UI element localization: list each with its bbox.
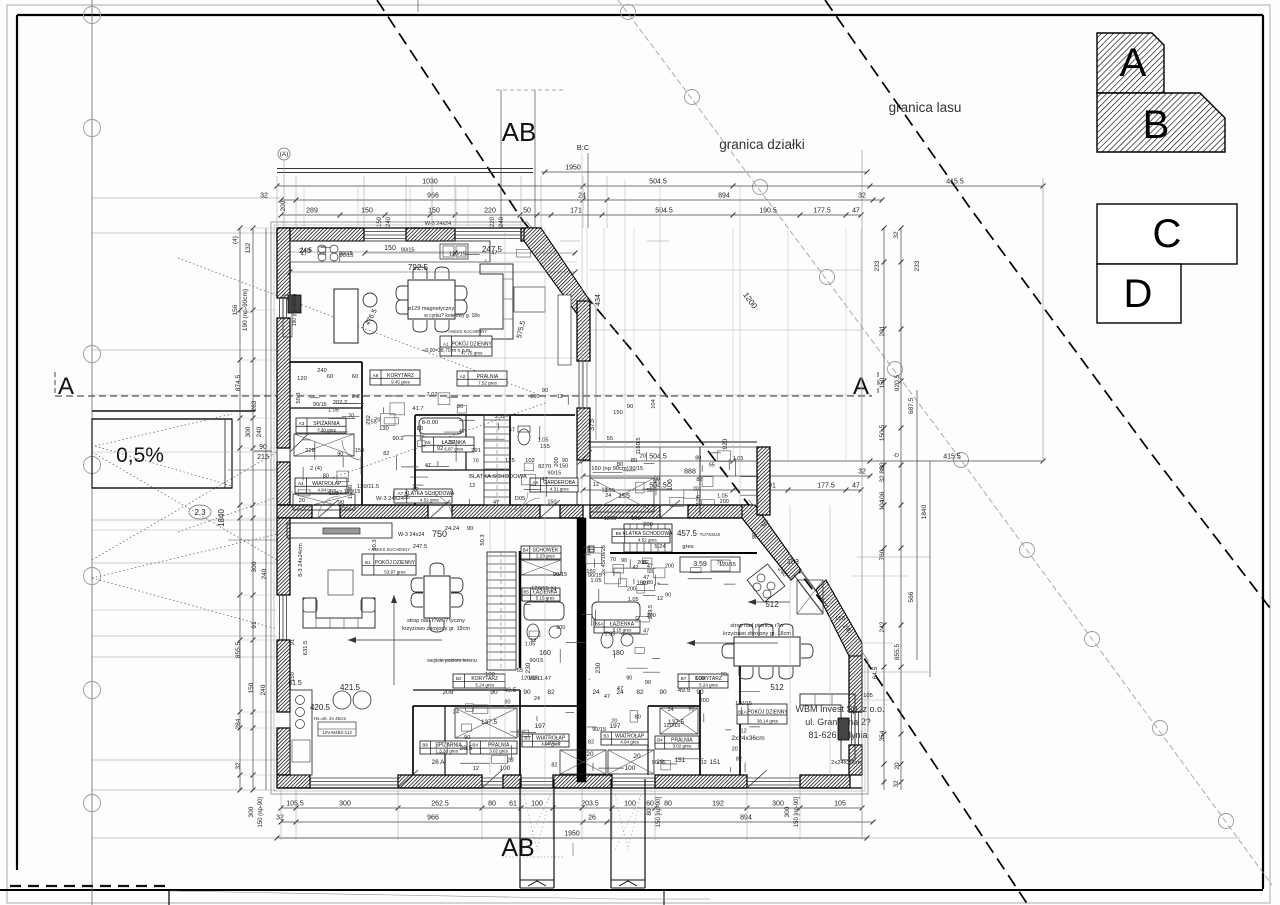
svg-text:177.5: 177.5 xyxy=(813,208,831,215)
kitchen dim lines xyxy=(365,252,575,254)
svg-text:20: 20 xyxy=(299,498,305,504)
svg-text:300: 300 xyxy=(772,801,784,808)
svg-text:KLATKA SCHODOWA: KLATKA SCHODOWA xyxy=(623,531,673,537)
svg-text:POKÓJ DZIENNY: POKÓJ DZIENNY xyxy=(375,559,416,566)
svg-text:1.05: 1.05 xyxy=(538,437,549,443)
svg-text:24: 24 xyxy=(668,707,674,713)
svg-text:2.23 gres: 2.23 gres xyxy=(536,554,556,559)
svg-text:wejście poziom terenu: wejście poziom terenu xyxy=(427,658,477,664)
wiatrolap A xyxy=(295,478,347,493)
survey axis line left xyxy=(91,0,93,905)
svg-text:200: 200 xyxy=(647,613,656,619)
upper unit top wall xyxy=(277,228,364,241)
svg-text:60: 60 xyxy=(327,374,333,380)
axis circle y=690 xyxy=(84,682,101,699)
schowek B-right xyxy=(588,546,594,552)
svg-text:ø129 magnetyczny: ø129 magnetyczny xyxy=(408,306,455,312)
svg-text:434: 434 xyxy=(595,294,602,306)
svg-text:82: 82 xyxy=(538,464,544,470)
svg-text:W-3 24x24: W-3 24x24 xyxy=(398,532,425,538)
svg-text:90/15: 90/15 xyxy=(313,402,327,408)
svg-text:150 [np-90]: 150 [np-90] xyxy=(794,796,800,827)
svg-text:12: 12 xyxy=(593,482,599,488)
svg-text:5.15 gres: 5.15 gres xyxy=(613,628,633,633)
svg-text:W-3 24x24: W-3 24x24 xyxy=(376,496,405,502)
svg-text:300: 300 xyxy=(245,426,252,437)
svg-text:47: 47 xyxy=(643,575,649,581)
svg-text:100: 100 xyxy=(625,765,636,772)
couch upper xyxy=(480,264,513,339)
svg-text:220: 220 xyxy=(484,208,496,215)
svg-text:granica lasu: granica lasu xyxy=(889,100,962,115)
svg-text:150: 150 xyxy=(559,463,568,469)
svg-text:50: 50 xyxy=(523,208,531,215)
svg-text:90/15: 90/15 xyxy=(629,466,643,472)
svg-text:90/15: 90/15 xyxy=(530,658,544,664)
svg-text:300: 300 xyxy=(248,806,255,817)
hob xyxy=(318,245,326,253)
svg-text:+ ANEKS KUCHENNY: + ANEKS KUCHENNY xyxy=(445,329,487,334)
svg-text:47: 47 xyxy=(604,694,610,700)
svg-text:24: 24 xyxy=(453,709,459,715)
svg-text:1260: 1260 xyxy=(604,516,617,522)
svg-text:2 (4): 2 (4) xyxy=(310,466,322,472)
svg-text:32: 32 xyxy=(235,762,242,770)
svg-text:2x24x36cm: 2x24x36cm xyxy=(831,760,861,766)
svg-text:1840: 1840 xyxy=(217,509,226,527)
svg-text:240: 240 xyxy=(256,426,263,437)
svg-text:150: 150 xyxy=(355,448,364,454)
svg-text:PRALNIA: PRALNIA xyxy=(477,374,499,380)
svg-text:153: 153 xyxy=(835,616,845,622)
dimension extension stubs right rows xyxy=(586,228,588,461)
boundary survey line with circles xyxy=(618,0,1272,885)
bottom rooms labels xyxy=(420,741,467,754)
svg-text:32: 32 xyxy=(276,815,284,822)
svg-text:247.5: 247.5 xyxy=(413,544,428,550)
svg-text:12: 12 xyxy=(701,760,707,766)
svg-text:90/15: 90/15 xyxy=(339,251,353,257)
faint horizontals xyxy=(290,261,577,263)
svg-text:24: 24 xyxy=(605,493,611,499)
svg-text:150: 150 xyxy=(290,672,296,682)
radiator left wall xyxy=(288,295,301,313)
svg-text:80: 80 xyxy=(695,455,701,461)
svg-text:106: 106 xyxy=(696,495,702,505)
tub A xyxy=(419,418,463,434)
svg-text:631.5: 631.5 xyxy=(303,641,309,656)
svg-text:180: 180 xyxy=(612,650,624,657)
svg-text:-D: -D xyxy=(893,453,899,459)
svg-text:24: 24 xyxy=(592,689,600,696)
svg-text:BLATKA SCHODOWA: BLATKA SCHODOWA xyxy=(469,474,527,480)
top dimension row detail xyxy=(281,214,861,216)
svg-text:B5A: B5A xyxy=(595,622,604,627)
svg-text:140: 140 xyxy=(631,516,641,522)
svg-text:120/15: 120/15 xyxy=(521,675,538,681)
bottom dimension row 1950 xyxy=(92,837,1240,839)
svg-text:4.52 gres: 4.52 gres xyxy=(638,538,658,543)
label A2 pralnia xyxy=(457,371,507,386)
axis circle y=465 xyxy=(84,457,101,474)
svg-text:209: 209 xyxy=(443,689,454,696)
svg-text:32: 32 xyxy=(893,231,900,239)
svg-text:5.15 gres: 5.15 gres xyxy=(536,596,556,601)
svg-text:20: 20 xyxy=(640,454,646,460)
svg-text:SPIŻARNIA: SPIŻARNIA xyxy=(313,420,340,427)
svg-text:1950: 1950 xyxy=(565,165,581,172)
island upper xyxy=(334,289,358,343)
svg-text:82: 82 xyxy=(736,756,742,762)
svg-text:100: 100 xyxy=(531,801,543,808)
svg-text:12: 12 xyxy=(449,440,455,446)
rug upper xyxy=(514,287,545,312)
bottom dimension row detail xyxy=(281,807,862,809)
svg-text:792.5: 792.5 xyxy=(408,263,429,272)
section tower 2 xyxy=(610,779,612,888)
svg-text:91: 91 xyxy=(290,639,296,645)
svg-text:100: 100 xyxy=(695,676,705,682)
lower unit left wall xyxy=(277,518,290,595)
party wall between lower units (solid) xyxy=(577,518,586,782)
svg-text:300: 300 xyxy=(339,801,351,808)
svg-text:60: 60 xyxy=(646,801,654,808)
svg-text:28 A: 28 A xyxy=(431,759,445,766)
svg-text:151: 151 xyxy=(675,757,686,764)
svg-text:125: 125 xyxy=(505,458,515,464)
svg-text:120/15: 120/15 xyxy=(544,741,561,747)
svg-text:228: 228 xyxy=(305,448,315,454)
svg-text:90: 90 xyxy=(645,680,651,686)
svg-text:90: 90 xyxy=(626,675,632,681)
svg-text:B4: B4 xyxy=(523,548,529,553)
svg-text:263: 263 xyxy=(251,400,258,411)
svg-text:354: 354 xyxy=(879,730,886,741)
svg-text:POKÓJ DZIENNY: POKÓJ DZIENNY xyxy=(747,709,788,716)
svg-text:420.5: 420.5 xyxy=(310,703,331,712)
svg-text:20: 20 xyxy=(586,751,594,758)
svg-text:47: 47 xyxy=(425,463,431,469)
svg-text:150 [np-90]: 150 [np-90] xyxy=(656,796,662,827)
svg-text:155: 155 xyxy=(618,493,630,500)
svg-text:190.5: 190.5 xyxy=(759,208,777,215)
svg-text:5.24 gres: 5.24 gres xyxy=(699,683,719,688)
svg-text:90/15: 90/15 xyxy=(652,760,666,766)
svg-text:7.52 gres: 7.52 gres xyxy=(478,381,498,386)
svg-text:4.94 gres: 4.94 gres xyxy=(620,740,640,745)
kitchen lower-left xyxy=(290,690,312,775)
svg-text:8-3 24x24cm: 8-3 24x24cm xyxy=(298,543,304,577)
top dimension row 1030/504.5/415.5 xyxy=(277,185,1043,187)
svg-text:156: 156 xyxy=(232,304,239,315)
ordinate lines xyxy=(92,197,280,199)
svg-text:192: 192 xyxy=(712,801,724,808)
diagonal window X xyxy=(797,580,823,614)
svg-text:82: 82 xyxy=(547,689,555,696)
svg-text:B6: B6 xyxy=(616,531,622,536)
left vertical dimension chains xyxy=(239,228,241,790)
svg-text:415.5: 415.5 xyxy=(946,179,964,186)
svg-text:60: 60 xyxy=(352,374,358,380)
sight dotted lines xyxy=(95,414,232,446)
interior walls upper xyxy=(290,361,362,363)
svg-text:1840: 1840 xyxy=(921,504,928,519)
svg-text:150: 150 xyxy=(637,581,646,587)
bottom dimension row 966/894 xyxy=(281,821,873,823)
svg-text:82: 82 xyxy=(696,477,702,483)
svg-text:55: 55 xyxy=(607,436,613,442)
svg-text:153: 153 xyxy=(787,559,799,566)
svg-text:82: 82 xyxy=(383,451,389,457)
svg-text:242: 242 xyxy=(879,621,886,632)
guide verticals between towers xyxy=(572,843,574,856)
svg-text:90: 90 xyxy=(688,707,694,713)
svg-text:240: 240 xyxy=(260,684,267,695)
svg-text:82: 82 xyxy=(412,487,418,493)
eaves outline xyxy=(271,222,596,794)
svg-text:32: 32 xyxy=(879,475,886,483)
svg-text:9.45 gres: 9.45 gres xyxy=(391,380,411,385)
svg-text:55: 55 xyxy=(647,488,653,494)
svg-text:90: 90 xyxy=(621,558,627,564)
svg-text:151: 151 xyxy=(710,759,721,766)
svg-text:894: 894 xyxy=(740,815,752,822)
driveway ramp xyxy=(92,410,255,412)
svg-text:strop nad piwnicą r?w: strop nad piwnicą r?w xyxy=(730,623,783,629)
svg-text:200: 200 xyxy=(665,563,674,569)
dining table upper xyxy=(408,280,455,319)
svg-text:190 (np-90cm): 190 (np-90cm) xyxy=(292,293,298,326)
svg-text:32: 32 xyxy=(893,780,900,788)
axis circle y=354 xyxy=(84,346,101,363)
legend block D xyxy=(1097,264,1181,323)
svg-text:233: 233 xyxy=(874,260,881,271)
svg-text:(A): (A) xyxy=(280,151,289,158)
axis circle y=803 xyxy=(84,795,101,812)
svg-text:WBM Invest Sp. z o.o.: WBM Invest Sp. z o.o. xyxy=(795,704,884,714)
svg-text:150: 150 xyxy=(248,682,255,693)
svg-text:105.5: 105.5 xyxy=(286,801,304,808)
upper unit left wall xyxy=(277,228,290,298)
garderoba A xyxy=(530,478,578,492)
svg-text:GARDEROBA: GARDEROBA xyxy=(543,480,576,486)
svg-text:200: 200 xyxy=(643,522,653,528)
svg-text:120: 120 xyxy=(297,376,307,382)
svg-text:3.59: 3.59 xyxy=(494,414,505,420)
lower unit bottom wall xyxy=(277,775,310,788)
door arcs upper xyxy=(318,496,340,518)
svg-text:137.5: 137.5 xyxy=(481,719,498,726)
svg-text:120/15: 120/15 xyxy=(344,489,361,495)
svg-text:120/15: 120/15 xyxy=(449,251,466,257)
top dimension row 966/894 xyxy=(281,199,882,201)
klatka B label xyxy=(612,529,670,543)
svg-text:171: 171 xyxy=(570,208,582,215)
stairs A xyxy=(484,415,510,505)
svg-text:90: 90 xyxy=(659,689,667,696)
svg-text:150: 150 xyxy=(586,569,595,575)
axis circle y=128 xyxy=(84,120,101,137)
svg-text:strop nad r?wni? tyczny: strop nad r?wni? tyczny xyxy=(407,618,465,624)
svg-text:203.5: 203.5 xyxy=(581,801,599,808)
svg-text:24: 24 xyxy=(534,696,540,702)
svg-text:50.3: 50.3 xyxy=(480,534,486,545)
svg-text:D05: D05 xyxy=(515,496,526,502)
svg-text:61: 61 xyxy=(509,801,517,808)
svg-text:421.5: 421.5 xyxy=(340,683,361,692)
svg-text:1.05: 1.05 xyxy=(328,408,339,414)
kitchen counter upper xyxy=(290,241,490,262)
svg-text:B8: B8 xyxy=(422,743,428,748)
svg-text:20: 20 xyxy=(894,762,901,770)
svg-text:70: 70 xyxy=(610,557,616,563)
svg-text:894: 894 xyxy=(718,193,730,200)
svg-text:70: 70 xyxy=(348,413,354,419)
svg-text:202.2: 202.2 xyxy=(333,400,348,406)
svg-text:55: 55 xyxy=(404,495,410,501)
svg-text:150.5: 150.5 xyxy=(879,424,886,441)
svg-text:106: 106 xyxy=(879,491,886,502)
svg-text:82: 82 xyxy=(636,689,644,696)
svg-text:80: 80 xyxy=(646,808,653,816)
svg-text:240: 240 xyxy=(261,568,268,579)
svg-text:krzyżowo zbrojony gr. 18cm: krzyżowo zbrojony gr. 18cm xyxy=(402,626,470,632)
right vertical dimension chains xyxy=(883,228,885,790)
svg-text:90: 90 xyxy=(467,526,473,532)
svg-text:284: 284 xyxy=(235,718,242,729)
svg-text:5.24 gres: 5.24 gres xyxy=(475,683,495,688)
axis circle y=15 xyxy=(84,7,101,24)
svg-text:90/15: 90/15 xyxy=(401,248,415,254)
svg-text:B4: B4 xyxy=(657,738,663,743)
svg-text:50.3: 50.3 xyxy=(372,539,378,550)
svg-text:55: 55 xyxy=(721,672,727,678)
svg-text:120/15: 120/15 xyxy=(663,723,680,729)
svg-text:80: 80 xyxy=(635,714,641,720)
svg-text:215: 215 xyxy=(257,454,269,461)
label B1 pokoj dzienny xyxy=(362,554,416,575)
svg-text:0,5%: 0,5% xyxy=(116,444,164,467)
svg-text:966: 966 xyxy=(427,815,439,822)
svg-text:C: C xyxy=(1153,212,1182,256)
sight V lower window xyxy=(92,534,277,578)
svg-text:1150.5: 1150.5 xyxy=(636,437,642,454)
svg-text:47: 47 xyxy=(301,252,307,258)
svg-text:TU?SSUS: TU?SSUS xyxy=(700,532,721,537)
svg-text:105: 105 xyxy=(863,693,873,699)
svg-text:375: 375 xyxy=(589,419,596,431)
right mid dimension rows xyxy=(583,460,1043,462)
svg-text:3.02 gres: 3.02 gres xyxy=(489,749,509,754)
svg-text:512: 512 xyxy=(765,600,779,609)
svg-text:1.05: 1.05 xyxy=(525,641,536,647)
svg-text:240: 240 xyxy=(317,368,327,374)
wc A xyxy=(518,429,530,445)
svg-text:262.5: 262.5 xyxy=(431,801,449,808)
korytarz label lower-right xyxy=(678,674,728,688)
svg-text:B3: B3 xyxy=(603,734,609,739)
lazienka B-right xyxy=(594,620,640,633)
svg-text:457.5: 457.5 xyxy=(677,529,698,538)
svg-text:132: 132 xyxy=(245,242,252,253)
svg-text:B:C: B:C xyxy=(577,143,590,152)
svg-text:150: 150 xyxy=(329,491,338,497)
svg-text:20: 20 xyxy=(693,487,699,493)
section tower 1 xyxy=(519,779,521,888)
svg-text:1.05: 1.05 xyxy=(628,597,639,603)
svg-text:20: 20 xyxy=(732,747,738,753)
svg-text:A8: A8 xyxy=(373,373,379,378)
svg-text:90: 90 xyxy=(752,533,758,539)
svg-text:415.5: 415.5 xyxy=(943,454,961,461)
svg-text:888: 888 xyxy=(684,469,696,476)
svg-text:24.24: 24.24 xyxy=(445,526,460,532)
party wall between units (horizontal) xyxy=(277,505,312,518)
stairs B-left xyxy=(487,552,516,670)
svg-text:150: 150 xyxy=(613,410,623,416)
svg-text:2x24x36cm: 2x24x36cm xyxy=(731,735,764,742)
svg-text:6.87 gres: 6.87 gres xyxy=(444,447,464,452)
svg-text:AB: AB xyxy=(502,117,537,147)
svg-text:64.5: 64.5 xyxy=(872,666,879,679)
svg-text:8-0.00: 8-0.00 xyxy=(422,420,438,426)
svg-text:150 (np-90): 150 (np-90) xyxy=(258,796,264,827)
svg-text:874.5: 874.5 xyxy=(235,374,242,391)
svg-text:12: 12 xyxy=(657,596,663,602)
svg-text:41.7: 41.7 xyxy=(412,406,423,412)
arrows lower-left xyxy=(393,595,395,685)
svg-text:90: 90 xyxy=(338,500,344,506)
svg-text:760: 760 xyxy=(879,549,886,560)
svg-text:A3: A3 xyxy=(299,421,305,426)
faint neighbour outline xyxy=(857,556,930,558)
legend block B (hatched) xyxy=(1097,93,1225,152)
svg-text:150: 150 xyxy=(879,377,886,388)
klatka A label xyxy=(394,489,452,503)
boundary line granica dzialki (bold dashed) xyxy=(377,0,1028,905)
dimension extension stubs bottom xyxy=(280,788,282,840)
door leaves xyxy=(318,500,338,518)
stairs B-right xyxy=(624,524,672,552)
svg-text:920: 920 xyxy=(722,438,729,449)
svg-text:Hs=ok. 2x 45cm: Hs=ok. 2x 45cm xyxy=(314,716,347,721)
corner hob on diagonal xyxy=(747,564,785,602)
svg-text:504.5: 504.5 xyxy=(649,454,667,461)
svg-text:90: 90 xyxy=(523,689,531,696)
svg-text:80: 80 xyxy=(879,462,886,470)
bottom-left boundary dashes xyxy=(10,885,170,887)
svg-text:A: A xyxy=(1120,41,1147,85)
kitchen counter lower-right xyxy=(680,557,740,572)
svg-text:B: B xyxy=(1143,103,1170,147)
sink upper xyxy=(440,244,468,259)
svg-text:687.5: 687.5 xyxy=(908,397,915,414)
svg-text:47: 47 xyxy=(643,628,649,634)
svg-text:KORYTARZ: KORYTARZ xyxy=(387,373,414,379)
svg-text:920,5: 920,5 xyxy=(894,374,901,391)
stools xyxy=(363,293,377,307)
svg-text:53.97 gres: 53.97 gres xyxy=(384,570,406,575)
svg-text:90/15: 90/15 xyxy=(592,727,606,733)
svg-text:granica działki: granica działki xyxy=(719,137,805,152)
svg-text:80: 80 xyxy=(488,801,496,808)
svg-text:291: 291 xyxy=(471,448,481,454)
svg-text:1.05: 1.05 xyxy=(733,456,744,462)
spizarnia closet xyxy=(296,418,346,433)
svg-text:504.5: 504.5 xyxy=(649,179,667,186)
svg-text:92: 92 xyxy=(437,446,443,452)
svg-text:80: 80 xyxy=(504,699,510,705)
